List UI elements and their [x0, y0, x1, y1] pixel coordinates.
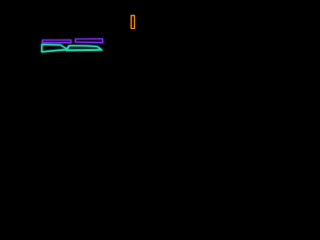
teal quad 1 (left sketched slab outline) [42, 44, 68, 52]
orange small sketched vertical rectangle outline [131, 15, 134, 28]
teal quad 2 (right sketched slab outline) [66, 45, 102, 50]
purple bar 1 (left thin sketched rectangle outline) [42, 40, 71, 43]
purple bar 2 (right thin sketched rectangle outline) [75, 39, 103, 43]
